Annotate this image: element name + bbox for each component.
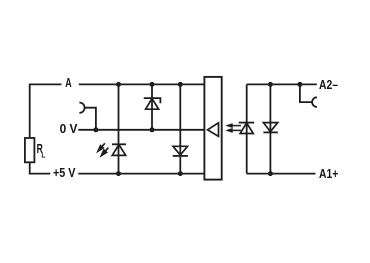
svg-text:L: L <box>41 151 46 160</box>
svg-text:0 V: 0 V <box>60 121 78 136</box>
svg-text:A1+: A1+ <box>319 166 339 181</box>
svg-text:A: A <box>65 75 72 90</box>
svg-text:+5 V: +5 V <box>53 165 76 180</box>
svg-text:A2–: A2– <box>319 77 338 92</box>
